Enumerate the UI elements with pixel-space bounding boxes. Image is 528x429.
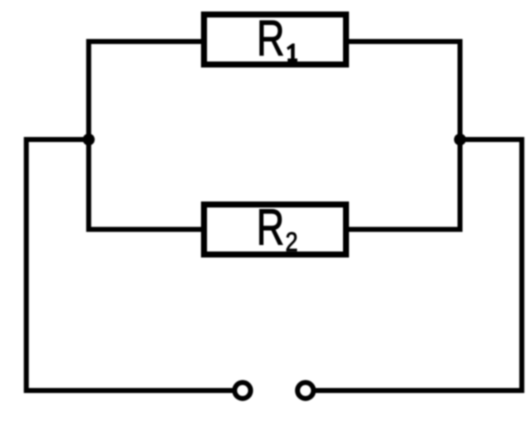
resistor R1 body bbox=[204, 15, 346, 65]
resistor R2 bbox=[204, 198, 346, 256]
resistor R1 bbox=[204, 10, 346, 66]
svg-text:2: 2 bbox=[285, 227, 298, 257]
wire from R1 right lead to top-right corner down to node B bbox=[347, 42, 460, 140]
svg-text:R: R bbox=[257, 10, 285, 66]
wire from node B right to outer rail, down and along bottom to right terminal bbox=[315, 140, 522, 391]
svg-text:R: R bbox=[256, 198, 284, 255]
junction node B (right) bbox=[454, 134, 466, 146]
resistor R2 body bbox=[204, 205, 346, 255]
wire from node A left to outer rail, down and along bottom to left terminal bbox=[26, 140, 233, 391]
wire from node B down to R2 right lead bbox=[347, 140, 460, 230]
terminal left (open circle) bbox=[235, 383, 251, 399]
wire from R1 left lead to top-left corner down to node A bbox=[89, 42, 203, 140]
junction node A (left) bbox=[83, 134, 95, 146]
wire from node A down to R2 left lead bbox=[89, 140, 203, 230]
terminal right (open circle) bbox=[298, 383, 314, 399]
